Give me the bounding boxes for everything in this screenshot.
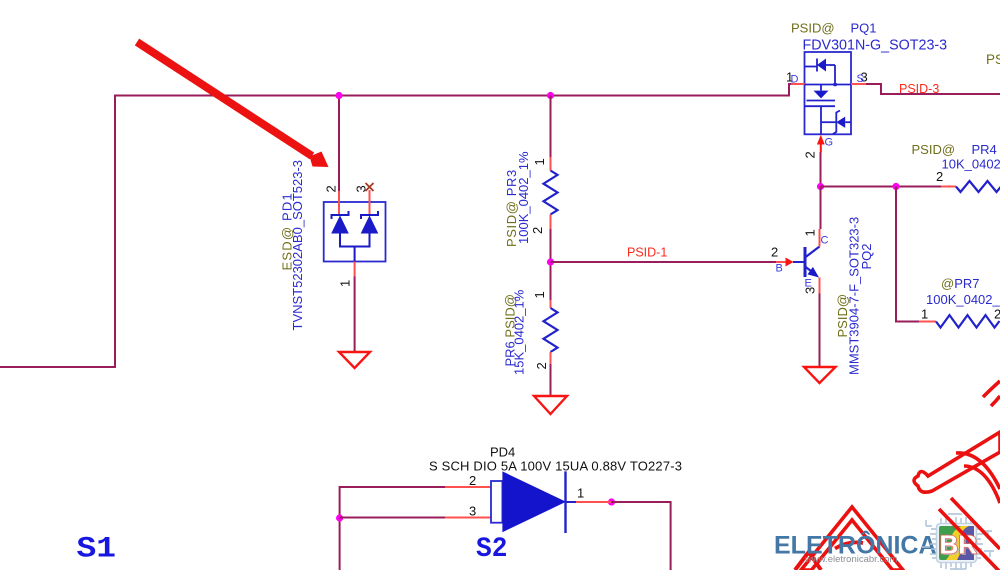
svg-text:S2: S2 [476, 534, 508, 565]
resistor PR6 15K_0402_1% [503, 289, 558, 375]
svg-text:B: B [776, 263, 783, 275]
PD4 anode bracket [491, 481, 502, 523]
junction node at PR3 column [547, 92, 554, 99]
watermark letter R bowl [956, 381, 1000, 503]
PQ2 NPN symbol strokes [793, 247, 820, 278]
svg-text:PSID-1: PSID-1 [627, 246, 667, 260]
PR3 pin 1 lead [550, 157, 552, 171]
PQ1 internal MOSFET and diode strokes [805, 59, 852, 135]
wire node to PD4 pin3 [340, 517, 445, 519]
transistor PQ1 FDV301N-G_SOT23-3 (MOSFET with gate zener) [786, 21, 947, 159]
PD4 pin 1 lead [576, 501, 611, 503]
PQ1 pin 3 lead [851, 83, 866, 85]
svg-text:1: 1 [577, 486, 584, 501]
wire PQ1 gate down to node [820, 152, 822, 187]
svg-text:D: D [791, 74, 799, 86]
diode PD4 S SCH DIO 5A 100V 15UA 0.88V TO227-3 [429, 445, 682, 534]
svg-text:2: 2 [530, 227, 545, 234]
svg-text:S: S [857, 73, 864, 85]
svg-text:2: 2 [469, 473, 476, 488]
svg-text:PSID@PR4: PSID@PR4 [912, 142, 997, 157]
svg-text:@PR7: @PR7 [941, 276, 980, 291]
watermark letter A crossbar [835, 542, 863, 548]
junction node PR7 branch [892, 183, 899, 190]
junction node bottom-left [336, 514, 343, 521]
wire PD1 pin1 to ground [354, 276, 356, 352]
svg-text:2: 2 [936, 169, 943, 184]
watermark small chevron [795, 552, 821, 570]
svg-text:2: 2 [771, 245, 778, 260]
wire node to PR4 [821, 186, 942, 188]
wire main top bus PSID-3 [115, 95, 789, 97]
PQ1 internal junction dot [834, 83, 837, 86]
svg-text:1: 1 [532, 291, 547, 298]
PR7 zigzag body [936, 315, 1000, 327]
no-connect X on PD1 pin 3 [366, 183, 374, 191]
svg-text:PSID@: PSID@ [986, 52, 1000, 67]
ground under PR6 [534, 396, 567, 414]
PQ1 pin 2 lead [820, 145, 822, 153]
svg-text:3: 3 [803, 287, 818, 294]
svg-text:PSID-3: PSID-3 [899, 82, 939, 96]
PQ1 gate zener triangle [836, 117, 845, 128]
svg-text:C: C [821, 235, 829, 247]
junction node gate/collector [817, 183, 824, 190]
ground under PQ2 [804, 367, 836, 383]
PR3 zigzag body [544, 171, 558, 215]
junction node PD4 pin1 [608, 498, 615, 505]
wire PQ1 pin3 to right edge, net PSID-3 [866, 84, 1000, 94]
wire bus to PD1 pin2 [338, 96, 340, 192]
svg-text:www.eletronicabr.com: www.eletronicabr.com [804, 554, 897, 565]
svg-text:3: 3 [469, 504, 476, 519]
PQ1 channel arrow triangle [814, 91, 829, 99]
PD4 cathode bar [564, 471, 566, 533]
junction node at PD1 column [335, 92, 342, 99]
svg-text:MMST3904-7-F_SOT323-3: MMST3904-7-F_SOT323-3 [847, 217, 862, 375]
PD1 pin 3 lead [369, 190, 371, 215]
svg-text:PD4: PD4 [490, 445, 515, 460]
svg-text:TVNST52302AB0_SOT523-3: TVNST52302AB0_SOT523-3 [290, 160, 305, 331]
svg-text:100K_0402_1%: 100K_0402_1% [926, 292, 1000, 307]
PD1 pin 2 lead [338, 191, 340, 215]
PR7 pin 1 lead [919, 321, 936, 323]
PQ2 emitter arrow [808, 267, 820, 278]
annotation red arrow [137, 42, 329, 167]
watermark letter R stem with serif [914, 432, 1000, 492]
PR6 pin 2 lead [550, 352, 552, 364]
svg-text:10K_0402_1%: 10K_0402_1% [942, 157, 1000, 172]
svg-text:2: 2 [994, 307, 1000, 322]
svg-text:2: 2 [324, 185, 339, 192]
junction node PSID-1 [547, 258, 554, 265]
PD4 diode triangle [502, 471, 566, 532]
PQ1 pin 1 lead [791, 83, 805, 85]
wire PR3 pin2 to PSID-1 node to PR6 pin1 [550, 229, 552, 300]
PR4 zigzag body [956, 181, 1000, 192]
svg-text:15K_0402_1%: 15K_0402_1% [512, 289, 527, 375]
svg-text:3: 3 [354, 185, 369, 192]
ESD diode PD1 TVNST52302AB0_SOT523-3 [280, 160, 386, 331]
svg-text:100K_0402_1%: 100K_0402_1% [516, 151, 531, 244]
svg-text:S1: S1 [77, 533, 117, 567]
wire PQ2 emitter to ground [819, 293, 821, 367]
PR6 pin 1 lead [550, 300, 552, 308]
svg-text:1: 1 [338, 280, 353, 287]
PQ2 pin 1 collector lead [819, 229, 821, 247]
svg-text:G: G [825, 137, 834, 149]
PR6 zigzag body [544, 308, 558, 352]
PD4 pin 2 lead [445, 486, 491, 488]
PQ1 body diode triangle [817, 59, 826, 72]
svg-text:PQ2: PQ2 [859, 243, 874, 269]
transistor PQ2 MMST3904-7-F_SOT323-3 (NPN) [771, 217, 874, 375]
logo ELETRONICA BR [774, 530, 937, 566]
wire net PSID-1 to PQ2 base [551, 261, 777, 263]
logo BR chip [922, 514, 994, 569]
PR3 pin 2 lead [550, 215, 552, 230]
resistor PR4 10K_0402 [912, 142, 1000, 192]
wire PR6 pin2 to ground [550, 363, 552, 396]
PD4 pin 3 lead [445, 517, 491, 519]
resistor PR3 100K_0402_1% [504, 151, 558, 247]
svg-text:1: 1 [921, 307, 928, 322]
svg-text:2: 2 [803, 151, 818, 158]
watermark letter R leg [939, 498, 1000, 570]
wire bottom-left loop upper to PD4 pin2 [340, 487, 445, 570]
ground under PD1 [339, 352, 370, 368]
svg-text:1: 1 [532, 158, 547, 165]
PQ2 pin 2 arrow [786, 258, 794, 267]
PR4 pin 2 lead [941, 186, 956, 188]
resistor PR7 100K_0402 [919, 276, 1000, 328]
svg-text:1: 1 [803, 229, 818, 236]
wire bus to PR3 pin1 [550, 96, 552, 158]
PQ2 pin 3 emitter lead [819, 278, 821, 294]
svg-text:S SCH DIO 5A 100V 15UA 0.88V T: S SCH DIO 5A 100V 15UA 0.88V TO227-3 [429, 459, 682, 474]
PQ2 pin 2 base lead [776, 261, 786, 263]
PD4 cathode stub [566, 501, 577, 503]
wire node to PQ2 collector [820, 187, 822, 230]
wire jog bus to PQ1 pin1 [789, 84, 791, 97]
wire left branch to edge [0, 95, 115, 368]
PQ1 pin 2 arrow [817, 135, 825, 145]
wire node down to PR7 pin1 [896, 187, 919, 322]
svg-text:2: 2 [534, 362, 549, 369]
svg-text:PSID@PQ1: PSID@PQ1 [791, 21, 877, 36]
PD1 pin 1 lead [354, 262, 356, 277]
PD1 body box [324, 202, 386, 262]
PQ1 body box [805, 52, 852, 134]
wire PD4 pin1 to bottom edge [612, 502, 671, 570]
watermark letter A chevron [801, 507, 903, 570]
